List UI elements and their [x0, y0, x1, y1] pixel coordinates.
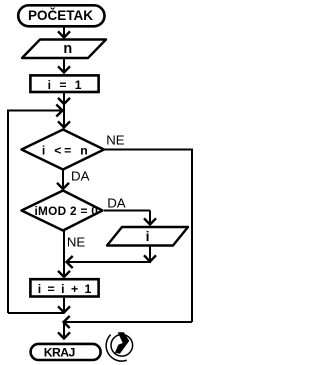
decision diamond2 i MOD 2 = 0: [22, 191, 103, 231]
svg-text:iMOD 2 = 0: iMOD 2 = 0: [34, 204, 98, 218]
terminator POCETAK: [18, 5, 104, 26]
wire i=i+1 to loop: [63, 298, 65, 313]
process rect i = 1: [30, 75, 98, 92]
DA branch wire to output: [104, 210, 150, 212]
svg-text:i <= n: i <= n: [42, 143, 91, 157]
terminator KRAJ: [31, 344, 101, 360]
svg-text:POČETAK: POČETAK: [28, 8, 93, 23]
svg-text:i: i: [146, 228, 150, 244]
left loop rail: [7, 110, 9, 314]
svg-text:NE: NE: [67, 234, 86, 249]
svg-text:DA: DA: [71, 168, 90, 183]
output parallelogram i: [107, 227, 188, 246]
NE branch wire right: [105, 149, 193, 151]
svg-text:i = i + 1: i = i + 1: [38, 282, 93, 296]
svg-text:i = 1: i = 1: [48, 78, 84, 92]
icon circled arrow: [106, 332, 132, 361]
svg-text:DA: DA: [107, 195, 126, 210]
DA wire diamond1 to diamond2: [62, 170, 64, 191]
wire input to i=1: [63, 59, 65, 73]
wire output down and left: [149, 247, 151, 263]
loop entry junction wire from left: [8, 110, 61, 112]
process rect i = i + 1: [30, 279, 98, 296]
wire start to input: [63, 27, 65, 37]
input parallelogram n: [22, 40, 106, 59]
wire down to KRAJ: [63, 322, 65, 338]
svg-text:n: n: [63, 41, 72, 57]
svg-text:KRAJ: KRAJ: [44, 345, 75, 359]
NE wire diamond2 to i=i+1: [63, 231, 65, 278]
right rail down: [191, 149, 193, 323]
svg-text:NE: NE: [106, 133, 125, 148]
bottom NE wire to KRAJ line: [64, 321, 192, 323]
wire i=1 down to diamond1: [63, 93, 65, 129]
decision diamond1 i <= n: [22, 130, 105, 170]
